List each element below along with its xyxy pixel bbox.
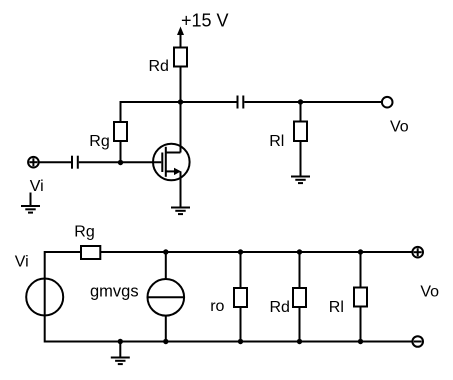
svg-text:Rd: Rd [270, 299, 290, 316]
wire Vi to capacitor C1 [39, 161, 71, 163]
svg-text:ro: ro [210, 298, 224, 315]
wire source to ground [180, 171, 182, 207]
wire gmvgs to bottom rail [165, 316, 167, 342]
capacitor C2 [238, 96, 244, 109]
wire Rl to ground [300, 141, 302, 177]
wire Rd bottom (equivalent) [299, 307, 301, 342]
svg-text:Rl: Rl [269, 133, 284, 150]
wire top rail [100, 251, 412, 253]
node gmvgs top junction [163, 249, 168, 254]
svg-text:Rg: Rg [89, 133, 109, 150]
terminal Vo minus [412, 336, 423, 347]
resistor Rg [114, 122, 127, 141]
svg-text:Rl: Rl [329, 299, 344, 316]
terminal Vi [28, 157, 39, 168]
ground below source [171, 208, 190, 215]
svg-text:Rd: Rd [149, 58, 169, 75]
ground below Vi [21, 193, 40, 213]
node ro top junction [238, 249, 243, 254]
node Rl bottom junction [358, 339, 363, 344]
svg-text:gmvgs: gmvgs [90, 282, 139, 300]
wire left branch [44, 251, 46, 343]
wire output node to Rl [300, 102, 302, 122]
wire Rl bottom (equivalent) [360, 307, 362, 342]
transistor Q1 (MOSFET) [153, 144, 190, 181]
source Vi (signal source) [26, 279, 63, 316]
node gate junction [118, 160, 123, 165]
node ro bottom junction [238, 339, 243, 344]
ground below bottom rail [111, 342, 130, 365]
wire Rd to drain node [180, 67, 182, 103]
resistor Rd [174, 48, 187, 67]
wire Rd top (equivalent) [299, 252, 301, 288]
resistor Rl [294, 122, 307, 142]
ground below Rl [291, 177, 310, 184]
wire Rl top (equivalent) [360, 252, 362, 288]
node Rd top junction [297, 249, 302, 254]
wire ro bottom [240, 307, 242, 342]
svg-text:Vi: Vi [30, 178, 44, 195]
power arrow [177, 27, 184, 48]
node Rl top junction [358, 249, 363, 254]
wire capacitor C2 to output node [244, 101, 300, 103]
svg-text:Vo: Vo [390, 118, 409, 135]
svg-text:Vo: Vo [420, 284, 439, 301]
terminal Vo [382, 97, 393, 108]
node Rd bottom junction [297, 339, 302, 344]
terminal Vo plus [412, 247, 423, 258]
current source gmvgs [148, 279, 185, 316]
wire capacitor C1 to gate [79, 161, 162, 163]
resistor Rd (equivalent) [293, 288, 306, 307]
wire output node to terminal Vo [301, 101, 382, 103]
wire Rg to gate node [120, 141, 122, 163]
svg-text:Vi: Vi [15, 254, 29, 271]
node drain junction [178, 99, 183, 104]
node gmvgs bottom junction [163, 339, 168, 344]
node output junction [298, 99, 303, 104]
wire ro top [240, 252, 242, 288]
svg-text:Rg: Rg [74, 224, 94, 241]
wire bottom rail [45, 341, 412, 343]
wire feedback rail [121, 102, 181, 122]
wire drain [180, 102, 182, 153]
wire drain node to capacitor C2 [181, 101, 237, 103]
resistor ro [234, 288, 247, 307]
capacitor C1 [72, 156, 78, 169]
wire top rail to gmvgs [165, 252, 167, 279]
resistor Rg (equivalent) [81, 246, 100, 259]
resistor Rl (equivalent) [354, 288, 367, 307]
node ground junction [118, 339, 123, 344]
svg-text:+15 V: +15 V [181, 11, 229, 31]
wire top rail left (equivalent circuit) [45, 251, 81, 253]
